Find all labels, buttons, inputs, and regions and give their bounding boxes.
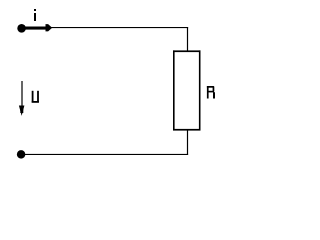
label i (dot)	[34, 9, 36, 11]
label i (stem)	[34, 13, 36, 21]
wire bottom rail	[21, 154, 188, 155]
label R (stem)	[207, 86, 209, 99]
resistor R (right edge)	[199, 50, 201, 130]
wire top rail	[22, 27, 188, 28]
resistor R (left edge)	[173, 50, 175, 130]
node B (bottom-left terminal dot)	[17, 150, 26, 159]
current arrow i (shaft)	[22, 27, 50, 30]
wire right vertical lower	[187, 130, 188, 155]
label U (left stem)	[32, 91, 34, 103]
voltage arrow U (head)	[19, 106, 25, 116]
node A (top-left terminal dot)	[17, 24, 26, 33]
resistor R (bottom edge)	[173, 129, 201, 131]
wire right vertical upper	[187, 27, 188, 51]
voltage arrow U (head body)	[20, 106, 23, 113]
resistor R (top edge)	[173, 50, 201, 52]
label U (right stem)	[37, 91, 39, 103]
label R (leg)	[213, 92, 215, 98]
label U (bottom bar)	[32, 101, 39, 103]
label R (middle bar)	[209, 91, 215, 93]
label R (top bar)	[207, 86, 214, 88]
voltage arrow U (shaft)	[21, 81, 22, 113]
label R (bowl right side)	[213, 87, 215, 92]
current arrow i (head)	[46, 24, 53, 31]
